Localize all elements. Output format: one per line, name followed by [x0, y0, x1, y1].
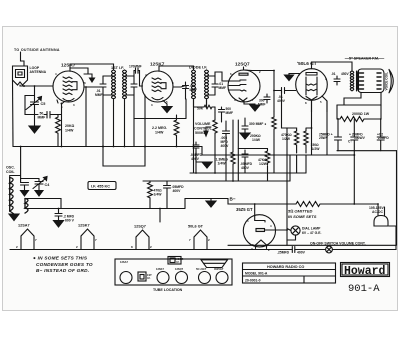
svg-text:2.2 MEG.: 2.2 MEG.: [152, 126, 167, 130]
resistor 200K: [250, 134, 261, 142]
label 5" SPEAKER P.M.: [349, 57, 379, 61]
svg-text:400V: 400V: [297, 250, 306, 254]
wire IF1 bottoms: [114, 95, 135, 147]
wire speaker down: [344, 93, 381, 106]
padder capacitor: [21, 183, 29, 191]
volume control R5: [194, 122, 213, 135]
label 1ST I.F.: [111, 66, 124, 70]
tube V2 12SK7 envelope: [142, 71, 173, 102]
svg-text:5Ω OMITTED: 5Ω OMITTED: [288, 209, 313, 214]
speaker coil bumps left: [360, 73, 364, 89]
chassis tube 50L6: [196, 267, 207, 271]
svg-text:HOWARD RADIO CO: HOWARD RADIO CO: [267, 265, 304, 269]
wire C5 ground stem: [34, 105, 36, 127]
svg-text:400V: 400V: [173, 189, 182, 193]
svg-text:12SA7: 12SA7: [61, 63, 76, 68]
label 20MFD right: [377, 132, 389, 140]
wire T2 bottoms: [194, 99, 207, 107]
wire left vertical drop: [12, 80, 15, 147]
resistor 1.3MEG: [231, 120, 235, 181]
capacitor screen bypass .01MMF: [183, 86, 189, 100]
wire lamp leads: [287, 229, 296, 241]
svg-text:IN SOME SETS: IN SOME SETS: [288, 214, 317, 219]
IF frequency box: [88, 182, 116, 190]
tube V4 inner electrodes: [306, 77, 317, 95]
svg-text:400V: 400V: [191, 157, 200, 161]
svg-text:2000Ω 1W: 2000Ω 1W: [352, 112, 370, 116]
svg-text:150WV: 150WV: [354, 136, 366, 140]
resistor R1 20K: [56, 115, 61, 147]
tube V2 grids: [152, 78, 161, 92]
label 12SQ7: [235, 62, 250, 67]
tube V5 plate lead: [255, 204, 265, 222]
svg-text:901-A: 901-A: [348, 283, 380, 295]
tube V1 12SA7 envelope: [53, 71, 84, 102]
svg-text:1/4W: 1/4W: [65, 129, 74, 133]
capacitor .25MFD 400V inline: [277, 250, 306, 254]
svg-text:MMF: MMF: [95, 93, 103, 97]
svg-text:C5: C5: [41, 102, 46, 106]
svg-text:1/2W: 1/2W: [259, 162, 268, 166]
wire plate to IF1: [70, 64, 114, 70]
wire lamp bracket: [286, 128, 288, 245]
label LOOP ANTENNA: [30, 66, 47, 74]
capacitor across secondary: [131, 76, 137, 95]
table HOWARD RADIO CO: [243, 263, 336, 283]
label VOICE COIL vertical: [384, 72, 388, 90]
coil L2 osc primary: [10, 178, 13, 212]
capacitor .05MFD 400V mid: [242, 150, 248, 161]
svg-text:12SA7: 12SA7: [120, 260, 128, 264]
wire line B to plug: [228, 244, 396, 246]
tube V3 cathode: [239, 98, 247, 101]
svg-text:400V: 400V: [221, 144, 230, 148]
svg-text:20-0001-0: 20-0001-0: [245, 279, 261, 283]
label 12SK7: [150, 62, 165, 67]
trimmer capacitor C4: [21, 179, 39, 182]
loop antenna L1: [13, 66, 28, 85]
switch symbol: [326, 246, 333, 253]
wire bottom bus B-: [25, 199, 228, 209]
tube V3 plate cap: [239, 73, 248, 75]
resistor R2 2.2MEG: [174, 119, 179, 138]
svg-text:TUBE LOCATION: TUBE LOCATION: [153, 288, 183, 292]
output transformer T3 primary: [350, 71, 352, 91]
capacitor C25: [335, 119, 342, 151]
svg-text:12SQ7: 12SQ7: [134, 225, 146, 229]
capacitor 500MMF avc: [219, 107, 225, 119]
logo box: [341, 263, 390, 277]
junction dot cathode: [61, 103, 63, 105]
tube V1 grids: [63, 77, 72, 95]
wire verticals to bus: [86, 87, 177, 147]
svg-text:20MFD: 20MFD: [378, 136, 389, 140]
svg-text:MMF: MMF: [226, 111, 234, 115]
label 12SA7: [61, 63, 76, 68]
label C1: [348, 140, 352, 144]
wire middle net lines: [143, 173, 306, 181]
svg-text:ʹ50L6 GT: ʹ50L6 GT: [297, 60, 317, 66]
svg-text:1/4W: 1/4W: [154, 193, 163, 197]
coil T2 primary: [192, 70, 194, 99]
svg-text:B− INSTEAD OF GRD.: B− INSTEAD OF GRD.: [36, 268, 89, 273]
svg-text:35Z5GT: 35Z5GT: [214, 267, 224, 271]
wire right edge drop: [396, 151, 398, 246]
wire trimmer parallel loop: [25, 96, 38, 115]
wire RC top tie: [238, 148, 267, 150]
resistor 470 ohm cathode: [148, 181, 153, 208]
svg-text:20KΩ: 20KΩ: [65, 124, 75, 128]
wire V2 screen: [173, 82, 186, 87]
coil T1 primary: [112, 70, 114, 99]
svg-text:ON-OFF SWITCH VOLUME CONT.: ON-OFF SWITCH VOLUME CONT.: [310, 241, 366, 245]
label ON-OFF SWITCH: [310, 241, 366, 245]
svg-text:.01: .01: [331, 72, 336, 76]
label DIODE I.F.: [189, 66, 207, 70]
capacitor .05MFD 400V left: [193, 142, 199, 152]
label TO OUTSIDE ANTENNA: [14, 48, 60, 52]
svg-text:MMF: MMF: [38, 116, 46, 120]
ground under C5: [29, 126, 40, 133]
wire plate lead top: [70, 68, 88, 74]
tube V5 filament: [256, 240, 267, 249]
svg-text:.25MFD: .25MFD: [277, 250, 290, 254]
wire main B+ bus left: [13, 146, 202, 148]
resistor 470K 1/2W right: [294, 130, 298, 153]
wire rectifier top line: [228, 199, 294, 205]
chassis 1ST IF box: [138, 272, 146, 281]
capacitor 50MMF: [38, 112, 46, 120]
svg-text:50L6 GT: 50L6 GT: [188, 225, 204, 229]
coil T1 secondary: [123, 70, 125, 99]
label OSC COIL: [6, 166, 15, 175]
tube V5 center tap box: [256, 229, 265, 232]
svg-text:50 L6GT: 50 L6GT: [196, 267, 207, 271]
capacitor .2MFD 600V: [55, 209, 62, 221]
capacitor across primary: [100, 76, 106, 95]
plug P1: [374, 216, 388, 227]
diode IF box on chassis: [168, 257, 181, 265]
svg-text:12SA7: 12SA7: [18, 224, 30, 228]
svg-text:MODEL 901-A: MODEL 901-A: [245, 272, 268, 276]
svg-text:300 MMF ●: 300 MMF ●: [249, 122, 266, 126]
resistor R 2000 ohm 1W: [352, 112, 370, 116]
chassis tube 12SA7: [120, 260, 128, 264]
chassis tube 12SK7: [156, 267, 164, 271]
capacitor .006 MFD 400V: [223, 121, 230, 181]
pin number digits: [55, 70, 327, 248]
tube V5 35Z5 envelope: [243, 215, 275, 247]
label 25MFD 25WV: [319, 132, 333, 140]
filament 12SQ7: [134, 225, 146, 229]
speaker trapezoid: [201, 260, 228, 268]
svg-text:25WV: 25WV: [319, 136, 329, 140]
coil L2 tickler: [25, 199, 28, 214]
trimmer capacitor C5: [34, 86, 36, 101]
wire tickler loop: [25, 199, 61, 209]
svg-text:I.F.: I.F.: [147, 276, 151, 280]
svg-text:1/4W: 1/4W: [252, 138, 261, 142]
label 300MMF dot: [249, 122, 266, 126]
svg-text:VOICE COIL: VOICE COIL: [384, 72, 388, 90]
filament 12SK7: [78, 224, 90, 228]
label 35Z5 GT: [236, 207, 253, 212]
svg-text:TO OUTSIDE ANTENNA: TO OUTSIDE ANTENNA: [14, 48, 60, 52]
svg-text:OSC.: OSC.: [6, 166, 15, 170]
svg-text:35Z5 GT: 35Z5 GT: [236, 207, 253, 212]
wire T2 sec to diode plates: [215, 72, 229, 81]
coupling capacitor .01 400V: [274, 88, 296, 94]
ground under 12SQ7: [254, 104, 256, 105]
label TUBE LOCATION: [153, 288, 183, 292]
wire drop to rectifier line: [353, 151, 355, 204]
plug prongs: [378, 204, 385, 216]
wire main B+ bus right: [202, 147, 354, 156]
capacitor C20a: [351, 119, 358, 151]
heater bus: [10, 249, 326, 251]
label 50L6 GT: [297, 60, 317, 66]
label 20MFD 150WV: [349, 132, 366, 140]
svg-text:DIODE I.F.: DIODE I.F.: [189, 66, 207, 70]
tube V2 cathode: [152, 98, 163, 100]
wire V4 plate to output transformer: [312, 62, 353, 71]
chassis tube 12SQ7: [175, 267, 184, 271]
svg-text:6V – 47 G.E.: 6V – 47 G.E.: [302, 231, 321, 235]
ground top left of V4: [289, 74, 300, 76]
capacitor T2 tuning: [212, 76, 218, 95]
svg-text:ANTENNA: ANTENNA: [30, 70, 47, 74]
svg-text:12SQ7: 12SQ7: [175, 267, 184, 271]
wire cathode net: [57, 100, 65, 147]
wire electrolytic bottom bus: [337, 150, 397, 152]
wire V2 cathode down + ground: [163, 101, 167, 107]
capacitor .05MFD 400V cathode: [164, 181, 171, 209]
svg-text:12SK7: 12SK7: [156, 267, 164, 271]
svg-text:VOLUME: VOLUME: [195, 122, 211, 126]
resistor 5 ohm line resistor: [294, 202, 322, 207]
svg-text:1/4W: 1/4W: [218, 162, 227, 166]
avc arrow: [84, 74, 92, 79]
wire V2 plate: [159, 66, 194, 71]
capacitor 300MMF to gnd: [242, 118, 248, 133]
svg-text:450V: 450V: [341, 72, 350, 76]
coil T2 secondary: [205, 70, 207, 99]
wire loop to grid: [20, 85, 53, 86]
wire avc line: [134, 99, 186, 119]
wire to plug: [332, 226, 396, 250]
ground osc coil: [10, 211, 14, 214]
svg-text:MMF: MMF: [219, 86, 227, 90]
wire cathode to ground: [244, 101, 255, 104]
speaker cone: [389, 70, 393, 93]
wire to 12SK7 grid: [138, 71, 143, 87]
wire heater detour loop: [103, 147, 145, 167]
wire V3 plate top: [244, 67, 275, 112]
wire screen lead right: [84, 86, 100, 88]
filament 50L6: [188, 225, 204, 229]
svg-text:CONDENSER GOES TO: CONDENSER GOES TO: [36, 262, 93, 267]
svg-text:● IN SOME SETS THIS: ● IN SOME SETS THIS: [33, 256, 88, 261]
dial lamp: [291, 226, 300, 235]
capacitor .01 450V plate: [334, 76, 340, 85]
svg-text:I.F. 455 KC: I.F. 455 KC: [91, 185, 110, 189]
label 901-A: [348, 283, 380, 295]
svg-text:DIAL LAMP: DIAL LAMP: [302, 227, 321, 231]
svg-text:1/4W: 1/4W: [155, 131, 164, 135]
speaker frame: [358, 69, 385, 93]
capacitor 300MMF plate bypass: [264, 94, 270, 103]
tube V4 cathode: [306, 97, 317, 101]
svg-text:B−: B−: [230, 197, 236, 202]
tube V1 cathode: [63, 99, 74, 101]
resistor 47K 1/2W: [265, 149, 269, 166]
resistor 150 ohm: [304, 130, 308, 153]
transformer core: [357, 71, 359, 91]
capacitor C20b: [377, 119, 384, 151]
wire 12SA7 screen cap: [84, 86, 86, 88]
svg-text:12SK7: 12SK7: [78, 224, 90, 228]
svg-text:Howard: Howard: [344, 265, 386, 278]
tube V4 plate box: [306, 73, 317, 76]
svg-text:1/2W: 1/2W: [312, 147, 321, 151]
wire 12SQ7 heater drop: [159, 209, 161, 223]
ground on B- line: [210, 199, 212, 202]
wire IF1 sec top to grid cap: [134, 71, 136, 77]
resistor 50K diode load: [197, 107, 204, 111]
svg-text:1/2W: 1/2W: [282, 137, 291, 141]
capacitor 170MMF inline: [129, 65, 142, 69]
tube V3 diodes and grid: [229, 80, 246, 91]
speaker coil bumps right: [377, 73, 381, 89]
wire osc top feed: [10, 147, 21, 183]
tube V4 50L6 envelope: [296, 69, 328, 101]
chassis outline: [115, 259, 232, 285]
wire V4 cathode down: [312, 96, 328, 112]
chassis tube 35Z5: [214, 267, 224, 271]
tube V3 12SQ7 envelope: [228, 70, 260, 102]
svg-text:600 V: 600 V: [65, 219, 75, 223]
svg-text:12SQ7: 12SQ7: [235, 62, 250, 67]
wire antenna lead: [21, 52, 25, 66]
svg-text:I.F.: I.F.: [176, 260, 180, 264]
filament 12SA7: [18, 224, 30, 228]
svg-text:COIL: COIL: [6, 170, 15, 174]
